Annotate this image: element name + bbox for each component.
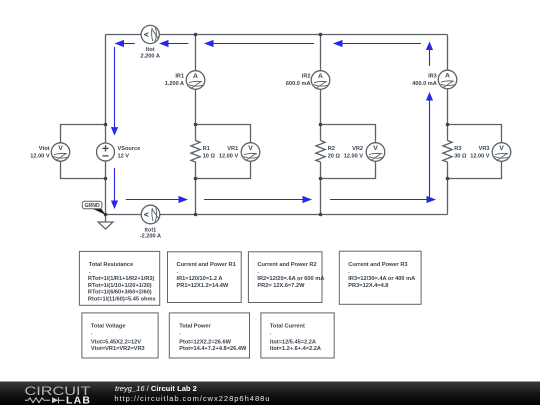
svg-text:A: A <box>318 73 323 80</box>
svg-text:Ptot=12X2.2=26.6W: Ptot=12X2.2=26.6W <box>179 339 231 345</box>
svg-text:12.00 V: 12.00 V <box>30 153 50 159</box>
svg-text:1.200 A: 1.200 A <box>165 81 184 87</box>
svg-text:12 V: 12 V <box>118 153 130 159</box>
svg-text:Total Voltage: Total Voltage <box>91 323 126 329</box>
svg-text:Ptot=14.4+7.2+4.8=26.4W: Ptot=14.4+7.2+4.8=26.4W <box>179 346 247 352</box>
svg-text:IR3=12/30=.4A or 400 mA: IR3=12/30=.4A or 400 mA <box>348 276 415 282</box>
svg-text:Total Current: Total Current <box>270 323 305 329</box>
svg-text:Vtot: Vtot <box>39 146 50 152</box>
svg-text:Itot=1.2+.6+.4=2.2A: Itot=1.2+.6+.4=2.2A <box>270 346 321 352</box>
svg-text:12.00 V: 12.00 V <box>470 153 490 159</box>
svg-text:A: A <box>143 32 150 37</box>
svg-text:RTot=1/(1/R1+1/R2+1/R3): RTot=1/(1/R1+1/R2+1/R3) <box>88 276 155 282</box>
svg-text:IR1: IR1 <box>175 74 184 80</box>
svg-text:400.0 mA: 400.0 mA <box>412 81 437 87</box>
svg-text:V: V <box>248 145 253 152</box>
svg-text:V: V <box>499 145 504 152</box>
svg-text:Vtot=VR1=VR2=VR3: Vtot=VR1=VR2=VR3 <box>91 346 145 352</box>
svg-text:PR1=12X1.2=14.4W: PR1=12X1.2=14.4W <box>177 283 229 289</box>
svg-text:IR2: IR2 <box>302 74 311 80</box>
svg-text:A: A <box>445 73 450 80</box>
svg-text:IR3: IR3 <box>428 74 437 80</box>
svg-text:2.200 A: 2.200 A <box>141 53 160 59</box>
svg-text:VR3: VR3 <box>479 146 490 152</box>
svg-text:IR2=12/20=.6A or 600 mA: IR2=12/20=.6A or 600 mA <box>257 276 324 282</box>
svg-text:R3: R3 <box>454 146 461 152</box>
svg-text:A: A <box>193 73 198 80</box>
svg-text:-2.200 A: -2.200 A <box>140 234 161 240</box>
svg-text:Current and Power R3: Current and Power R3 <box>348 262 407 268</box>
svg-text:Vtot=5.45X2.2=12V: Vtot=5.45X2.2=12V <box>91 339 141 345</box>
svg-text:IR1=120/10=1.2 A: IR1=120/10=1.2 A <box>177 276 223 282</box>
svg-text:Itot: Itot <box>146 47 155 53</box>
svg-text:RTot=1/(6/60+3/60+2/60): RTot=1/(6/60+3/60+2/60) <box>88 290 152 296</box>
svg-text:RTot=1/(1/10+1/20+1/30): RTot=1/(1/10+1/20+1/30) <box>88 283 152 289</box>
svg-text:R1: R1 <box>203 146 210 152</box>
svg-text:V: V <box>58 145 63 152</box>
svg-text:treyg_16 / Circuit Lab 2: treyg_16 / Circuit Lab 2 <box>115 384 197 393</box>
svg-text:http://circuitlab.com/cwx228p6: http://circuitlab.com/cwx228p6h488u <box>114 394 270 403</box>
svg-text:12.00 V: 12.00 V <box>344 153 364 159</box>
svg-text:V: V <box>373 145 378 152</box>
svg-text:LAB: LAB <box>66 395 91 405</box>
svg-text:10 Ω: 10 Ω <box>203 153 216 159</box>
svg-text:30 Ω: 30 Ω <box>454 153 467 159</box>
svg-text:12.00 V: 12.00 V <box>219 153 239 159</box>
svg-text:VR1: VR1 <box>227 146 238 152</box>
svg-text:Current and Power R1: Current and Power R1 <box>177 262 236 268</box>
svg-text:R2: R2 <box>328 146 335 152</box>
svg-text:Total Power: Total Power <box>179 323 211 329</box>
svg-text:Current and Power R2: Current and Power R2 <box>257 262 316 268</box>
svg-text:VR2: VR2 <box>352 146 363 152</box>
svg-text:600.0 mA: 600.0 mA <box>286 81 311 87</box>
svg-text:Itot=12/5.45=2.2A: Itot=12/5.45=2.2A <box>270 339 316 345</box>
svg-text:VSource: VSource <box>118 146 141 152</box>
svg-text:GRND: GRND <box>84 203 100 209</box>
svg-text:Total Resistance: Total Resistance <box>89 262 133 268</box>
svg-text:Rtot=1/(11/60)=5.45 ohms: Rtot=1/(11/60)=5.45 ohms <box>88 296 156 302</box>
svg-text:A: A <box>144 212 151 217</box>
svg-text:PR3=12X.4=4.8: PR3=12X.4=4.8 <box>348 283 388 289</box>
svg-text:20 Ω: 20 Ω <box>328 153 341 159</box>
svg-text:Itot1: Itot1 <box>144 227 156 233</box>
svg-text:PR2= 12X.6=7.2W: PR2= 12X.6=7.2W <box>257 283 305 289</box>
